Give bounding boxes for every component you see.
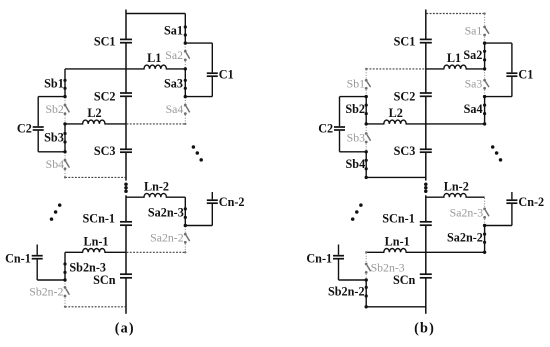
switch Sb2n-2 (closed) bbox=[365, 280, 367, 307]
corner dots (a) bbox=[184, 123, 186, 125]
ellipsis dots right (b) bbox=[491, 145, 495, 149]
svg-text:L2: L2 bbox=[87, 106, 101, 120]
capacitor SC1 bbox=[120, 38, 132, 40]
svg-text:Sb2n-2: Sb2n-2 bbox=[29, 284, 63, 298]
switch Sb1 (open) bbox=[365, 70, 367, 79]
wire Sa junction to Cn-2 (a) bbox=[185, 225, 212, 227]
bus ellipsis dots (a) bbox=[124, 182, 128, 186]
ellipsis dots left (a) bbox=[58, 203, 62, 207]
svg-text:Sb2: Sb2 bbox=[345, 102, 365, 116]
wire C1 bottom to Sa junction (a) bbox=[185, 96, 212, 98]
svg-text:Sb4: Sb4 bbox=[46, 157, 64, 171]
wire Sb4 to bus (b) bbox=[366, 176, 426, 178]
capacitor SC3 bbox=[420, 148, 432, 150]
wire with inductor L1 bbox=[126, 65, 185, 69]
svg-text:C1: C1 bbox=[219, 68, 234, 82]
wire with inductor L2 bbox=[65, 120, 126, 124]
svg-text:Sb3: Sb3 bbox=[347, 130, 365, 144]
wire bus to Sa4 (a) bbox=[127, 123, 186, 125]
wire Sb4 to bus (a) bbox=[65, 176, 126, 178]
capacitor C1 column (b) bbox=[511, 43, 513, 72]
svg-text:L1: L1 bbox=[147, 51, 161, 65]
svg-text:L1: L1 bbox=[447, 51, 461, 65]
svg-text:SCn: SCn bbox=[93, 273, 116, 287]
switch Sb2 (closed) bbox=[365, 97, 367, 124]
wire Sb top to bus (b) bbox=[366, 68, 425, 70]
svg-text:Sb4: Sb4 bbox=[346, 157, 366, 171]
capacitor SCn bbox=[120, 273, 132, 275]
switch Sa3 (closed) bbox=[184, 69, 186, 97]
switch Sa3 (open) bbox=[484, 70, 486, 79]
capacitor SC1 bbox=[420, 38, 432, 40]
wire Sa junction to C1 top (a) bbox=[185, 42, 212, 44]
svg-text:SC2: SC2 bbox=[94, 89, 116, 103]
switch Sb2n-2 (open) bbox=[64, 281, 66, 286]
svg-text:Sa1: Sa1 bbox=[164, 23, 183, 37]
svg-text:Sa1: Sa1 bbox=[465, 23, 483, 37]
wire C2 bottom to Sb junction (b) bbox=[340, 151, 367, 153]
switch Sa2n-2 (open) bbox=[184, 226, 186, 232]
svg-text:SCn-1: SCn-1 bbox=[382, 212, 415, 226]
switch Sa2n-3 (closed) bbox=[184, 197, 186, 225]
capacitor SCn-1 bbox=[120, 221, 132, 223]
switch Sb2 (open) bbox=[64, 97, 66, 103]
circuit (b) bbox=[306, 10, 544, 337]
switch Sb4 (open) bbox=[64, 153, 66, 159]
wire Sb2n-2 to bus (b) bbox=[366, 306, 426, 308]
junction dots Sa column (b) bbox=[483, 41, 486, 44]
switch Sa1 (closed) bbox=[184, 14, 186, 44]
svg-text:Sb2n-3: Sb2n-3 bbox=[69, 261, 106, 275]
capacitor SCn-1 bbox=[420, 221, 432, 223]
svg-text:Cn-1: Cn-1 bbox=[306, 251, 332, 265]
main bus line circuit (b) bbox=[425, 10, 427, 40]
junction dots Sa column (a) bbox=[184, 41, 187, 44]
svg-text:C2: C2 bbox=[318, 121, 333, 135]
switch Sa4 (closed) bbox=[484, 97, 486, 124]
main bus line circuit (a) bbox=[125, 10, 127, 40]
capacitor SC2 bbox=[420, 92, 432, 94]
circuit (a) bbox=[5, 10, 244, 337]
switch Sb2n-3 (open) bbox=[365, 253, 367, 262]
switch Sa2 (closed) bbox=[484, 43, 486, 69]
switch Sb3 (open) bbox=[365, 125, 367, 132]
svg-text:Ln-1: Ln-1 bbox=[83, 234, 108, 248]
switch Sb3 (closed) bbox=[64, 124, 66, 152]
wire Sa2n-2 to bus (b) bbox=[426, 251, 485, 253]
ellipsis dots right (a) bbox=[192, 145, 196, 149]
switch Sb1 (closed) bbox=[64, 69, 66, 97]
bus ellipsis dots (b) bbox=[424, 182, 428, 186]
capacitor SC2 bbox=[120, 92, 132, 94]
capacitor C2 column (a) bbox=[37, 97, 39, 127]
capacitor C1 column (a) bbox=[211, 43, 213, 72]
wire Sb junction to C2 top (b) bbox=[340, 96, 367, 98]
svg-text:Sa2n-3: Sa2n-3 bbox=[450, 206, 484, 220]
wire Sb junction to Cn-1 (b) bbox=[339, 279, 367, 281]
wire with inductor Ln-2 bbox=[426, 193, 485, 197]
wire Sa2n-2 to bus (a) bbox=[127, 251, 186, 253]
svg-text:Sb3: Sb3 bbox=[44, 130, 64, 144]
svg-text:SC3: SC3 bbox=[94, 144, 116, 158]
svg-text:Sb1: Sb1 bbox=[347, 77, 365, 91]
svg-text:SC1: SC1 bbox=[94, 35, 116, 49]
svg-text:SC2: SC2 bbox=[394, 89, 416, 103]
svg-text:Sa2n-2: Sa2n-2 bbox=[447, 231, 483, 245]
top wire bus to Sa column (a) bbox=[126, 13, 185, 15]
switch Sa1 (open) bbox=[484, 14, 486, 25]
svg-text:Sa4: Sa4 bbox=[166, 102, 184, 116]
wire bus to Sa4 (b) bbox=[426, 123, 485, 125]
wire C2 bottom to Sb junction (a) bbox=[38, 151, 65, 153]
svg-text:(b): (b) bbox=[414, 320, 435, 336]
wire Sa junction to Cn-2 (b) bbox=[485, 225, 512, 227]
capacitor Cn-2 column (b) bbox=[511, 204, 513, 226]
svg-text:Cn-1: Cn-1 bbox=[5, 251, 31, 265]
wire with inductor L2 bbox=[366, 120, 426, 124]
svg-text:C2: C2 bbox=[17, 121, 32, 135]
svg-text:Sa2n-3: Sa2n-3 bbox=[148, 206, 184, 220]
wire Sb junction to C2 top (a) bbox=[38, 96, 65, 98]
svg-text:L2: L2 bbox=[389, 106, 403, 120]
svg-text:SC1: SC1 bbox=[394, 35, 416, 49]
ellipsis dots left (b) bbox=[359, 203, 363, 207]
capacitor Cn-2 column (a) bbox=[211, 204, 213, 226]
wire Sb top to bus (a) bbox=[65, 68, 126, 70]
capacitor SC3 bbox=[120, 148, 132, 150]
capacitor SCn bbox=[420, 273, 432, 275]
svg-text:Sa2: Sa2 bbox=[165, 48, 183, 62]
wire with inductor Ln-1 bbox=[366, 249, 426, 253]
switch Sa4 (open) bbox=[184, 97, 186, 103]
wire Sb2n-2 to bus (a) bbox=[65, 306, 126, 308]
capacitor C2 column (b) bbox=[339, 97, 341, 127]
svg-text:SC3: SC3 bbox=[394, 144, 416, 158]
svg-text:Ln-1: Ln-1 bbox=[385, 234, 410, 248]
svg-text:Sa3: Sa3 bbox=[164, 77, 183, 91]
switch Sb4 (closed) bbox=[365, 152, 367, 178]
junction dots Sb column (b) bbox=[365, 95, 368, 98]
corner dots (b) bbox=[483, 122, 486, 125]
svg-text:SCn-1: SCn-1 bbox=[82, 212, 115, 226]
svg-text:(a): (a) bbox=[115, 320, 135, 336]
wire with inductor L1 bbox=[426, 65, 485, 69]
svg-text:Sb1: Sb1 bbox=[44, 77, 64, 91]
svg-text:Sa3: Sa3 bbox=[465, 77, 483, 91]
svg-text:SCn: SCn bbox=[393, 273, 416, 287]
switch Sa2n-2 (closed) bbox=[484, 226, 486, 253]
svg-text:Sa2: Sa2 bbox=[463, 48, 482, 62]
wire Sb junction to Cn-1 (a) bbox=[37, 279, 65, 281]
svg-text:Ln-2: Ln-2 bbox=[444, 179, 469, 193]
top wire bus to Sa column (b) bbox=[426, 13, 484, 15]
wire Sa junction to C1 top (b) bbox=[485, 42, 512, 44]
wire C1 bottom to Sa junction (b) bbox=[485, 96, 512, 98]
svg-text:Cn-2: Cn-2 bbox=[219, 195, 245, 209]
wire with inductor Ln-2 bbox=[126, 193, 185, 197]
svg-text:Ln-2: Ln-2 bbox=[144, 179, 169, 193]
junction dots Sb column (a) bbox=[63, 95, 66, 98]
svg-text:Sb2: Sb2 bbox=[45, 102, 63, 116]
switch Sb2n-3 (closed) bbox=[64, 252, 66, 280]
svg-text:Sb2n-3: Sb2n-3 bbox=[371, 261, 405, 275]
capacitor Cn-1 column (a) bbox=[36, 260, 38, 281]
svg-text:Sa2n-2: Sa2n-2 bbox=[150, 231, 184, 245]
switch Sa2 (open) bbox=[184, 44, 186, 50]
svg-text:Sa4: Sa4 bbox=[464, 102, 483, 116]
svg-text:Cn-2: Cn-2 bbox=[518, 195, 544, 209]
capacitor Cn-1 column (b) bbox=[338, 260, 340, 281]
svg-text:Sb2n-2: Sb2n-2 bbox=[328, 284, 365, 298]
svg-text:C1: C1 bbox=[518, 68, 533, 82]
switch Sa2n-3 (open) bbox=[484, 198, 486, 207]
wire with inductor Ln-1 bbox=[65, 249, 126, 253]
